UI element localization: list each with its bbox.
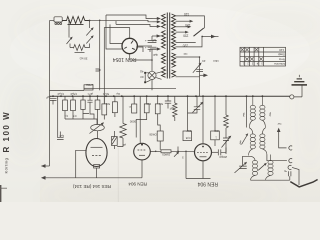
title R 100 W xyxy=(2,111,11,153)
svg-text:4Ω: 4Ω xyxy=(140,70,144,74)
terminal circle ground xyxy=(290,95,294,99)
netz tick xyxy=(96,69,101,71)
secondary tap arrows xyxy=(136,17,161,52)
grid wires step xyxy=(65,108,97,125)
wire HT line 3 xyxy=(116,24,153,26)
svg-text:220: 220 xyxy=(182,43,188,47)
wire grid feed det xyxy=(187,96,189,131)
transformer T1 core xyxy=(167,13,169,79)
svg-text:50k: 50k xyxy=(105,102,110,106)
svg-text:RES 164 (RE 134): RES 164 (RE 134) xyxy=(72,184,111,189)
variable capacitor reaction xyxy=(222,96,232,154)
svg-text:Netz: Netz xyxy=(278,57,285,61)
svg-text:2μF: 2μF xyxy=(46,96,51,100)
capacitor box 4uF mid xyxy=(136,96,151,137)
resistor box small hatch xyxy=(112,131,127,149)
svg-text:4μF: 4μF xyxy=(152,39,157,43)
lamp dial light xyxy=(144,71,161,90)
mains input arrow A2 xyxy=(41,176,76,180)
trimmer capacitor xyxy=(188,96,204,113)
capacitor 1uF floating xyxy=(57,132,64,140)
svg-text:0,05: 0,05 xyxy=(185,136,190,139)
tube U1 RGN 1054 rectifier xyxy=(122,38,137,53)
transformer T1 primary winding xyxy=(172,14,176,77)
svg-text:4V: 4V xyxy=(202,59,206,63)
svg-text:110: 110 xyxy=(184,12,189,16)
jack feed arrow xyxy=(277,128,287,148)
ground symbol xyxy=(292,75,308,97)
svg-text:≈4Ω: ≈4Ω xyxy=(213,59,219,63)
table X marks xyxy=(241,48,263,61)
choke coil left xyxy=(173,96,177,121)
wire tube2 feed xyxy=(139,96,141,143)
transformer T1 secondary winding upper xyxy=(162,14,166,49)
bus upper xyxy=(50,88,177,90)
transformer T1 secondary winding lower xyxy=(162,53,166,77)
heater arrow right xyxy=(176,74,209,78)
svg-text:0,5: 0,5 xyxy=(72,114,76,118)
voltage table xyxy=(240,47,286,66)
label lamp 6V xyxy=(140,70,144,79)
svg-text:≈μ: ≈μ xyxy=(283,170,287,174)
paper blotches (decorative) xyxy=(7,9,320,205)
series capacitor jack3 xyxy=(283,170,290,177)
svg-text:REN 904: REN 904 xyxy=(128,182,147,187)
resistor box Rf 50k xyxy=(102,96,110,119)
svg-text:DW05: DW05 xyxy=(162,153,170,157)
wire detector bottom xyxy=(251,176,290,180)
svg-text:μF½: μF½ xyxy=(87,92,93,96)
svg-text:150: 150 xyxy=(183,34,189,38)
wire rectifier anode xyxy=(104,28,129,39)
wire left main vertical xyxy=(49,21,51,167)
svg-text:DW: DW xyxy=(146,102,151,106)
wire antenna vertical xyxy=(76,150,86,178)
coupling box DW05 xyxy=(161,150,195,157)
wire antenna coil side xyxy=(246,96,248,127)
capacitor 200pF xyxy=(212,148,228,160)
resistor box mid2 xyxy=(155,96,163,131)
svg-text:50k: 50k xyxy=(158,102,163,106)
resistor R2 xyxy=(70,45,88,61)
coil L1b xyxy=(260,96,266,128)
svg-text:DW: DW xyxy=(186,129,191,133)
resistor box DW1 xyxy=(211,96,220,146)
jack J3 xyxy=(288,165,291,169)
resistor box 170ohm inline xyxy=(84,83,94,90)
coil L4b xyxy=(266,155,274,181)
hum trimmer xyxy=(193,57,203,96)
resistor box Re xyxy=(95,96,100,119)
capacitor 1uF drop wire xyxy=(57,96,59,137)
svg-text:+: + xyxy=(145,46,147,50)
coil L1a xyxy=(249,96,255,128)
svg-text:RGN 1054: RGN 1054 xyxy=(113,56,137,62)
label l3 with arrow xyxy=(238,133,248,146)
capacitor 2uF on mains vertical xyxy=(46,96,57,105)
resistor zigzag 5k vertical xyxy=(117,96,136,146)
svg-text:4μF: 4μF xyxy=(153,53,158,57)
resistor box DW lower xyxy=(149,131,163,150)
resistor R1 xyxy=(62,17,89,25)
wire HT line top xyxy=(106,15,153,19)
svg-text:Ωμ: Ωμ xyxy=(116,92,120,96)
svg-text:REN 904: REN 904 xyxy=(197,181,218,187)
svg-text:6V: 6V xyxy=(140,75,144,79)
coil L2a xyxy=(249,128,256,156)
svg-text:Körting: Körting xyxy=(4,158,9,174)
wire tube2 anode to box xyxy=(150,151,161,153)
capacitor Cd xyxy=(87,96,92,108)
wire rectifier to caps xyxy=(138,45,153,47)
wire HT line 2 xyxy=(90,20,153,22)
resistor box Rc xyxy=(81,96,89,113)
selector labels xyxy=(182,12,190,47)
svg-text:110: 110 xyxy=(279,48,284,52)
switch S1 contacts xyxy=(86,20,94,48)
jack J1 xyxy=(289,146,292,150)
svg-text:R 100 W: R 100 W xyxy=(2,111,11,153)
resistor box 0.1 mid xyxy=(128,96,137,113)
svg-text:50√Ω: 50√Ω xyxy=(103,92,109,96)
svg-text:DW05: DW05 xyxy=(149,133,157,137)
bus component labels row xyxy=(57,92,120,96)
tube V1 RES 164 xyxy=(86,139,107,178)
wire rectifier left verticals xyxy=(100,15,123,104)
svg-text:0,5μF: 0,5μF xyxy=(70,92,77,96)
selector blade xyxy=(194,28,219,38)
table row labels xyxy=(242,48,285,66)
capacitor 2uF mid xyxy=(165,96,175,110)
wire bottom rail xyxy=(76,177,142,179)
resistor box DW005 xyxy=(183,129,192,141)
coupling arrow xyxy=(258,163,267,171)
svg-text:30 kΩ: 30 kΩ xyxy=(79,57,88,61)
svg-text:0,1: 0,1 xyxy=(64,114,68,118)
voltage selector taps xyxy=(176,16,205,47)
coil L4a xyxy=(251,156,258,180)
tube V3 REN 904 xyxy=(195,96,212,178)
svg-text:Stadt: Stadt xyxy=(278,53,285,57)
switch contact left xyxy=(67,20,73,48)
svg-text:5000: 5000 xyxy=(129,120,136,124)
page corner mark xyxy=(0,185,7,202)
resistor box Rg xyxy=(112,96,117,117)
detector tuning capacitor xyxy=(235,156,252,173)
volume arrow xyxy=(174,147,184,160)
svg-text:125: 125 xyxy=(185,23,191,27)
tube V2 REN 904 xyxy=(134,143,151,178)
svg-text:Antenne: Antenne xyxy=(274,62,286,66)
wire tube3 cathode rail xyxy=(185,151,210,179)
resistor box Rb xyxy=(71,96,77,119)
bus lower xyxy=(50,95,290,97)
potentiometer grid P1 xyxy=(90,119,105,139)
jack J2 xyxy=(267,155,292,163)
mains input arrow A1 xyxy=(41,164,50,168)
svg-text:200pF: 200pF xyxy=(219,155,227,159)
output down arrow xyxy=(290,167,317,187)
svg-text:DW: DW xyxy=(214,129,219,133)
title Koerting xyxy=(4,158,9,174)
svg-text:μF: μF xyxy=(122,143,126,147)
svg-text:170Ω: 170Ω xyxy=(85,83,93,87)
bus junction dots xyxy=(52,95,263,97)
wire rectifier cathode xyxy=(130,49,153,71)
resistor box Ra xyxy=(63,96,68,119)
heater tap 4V xyxy=(176,52,220,63)
svg-text:1μF: 1μF xyxy=(59,134,64,138)
svg-text:+: + xyxy=(145,39,147,43)
capacitor C1 electrolytic stack 4uF xyxy=(145,36,161,57)
svg-text:0,1μF: 0,1μF xyxy=(57,92,64,96)
fold streak (decorative) xyxy=(118,148,119,202)
coil L2b xyxy=(260,128,267,155)
fuse F1 xyxy=(50,17,63,25)
